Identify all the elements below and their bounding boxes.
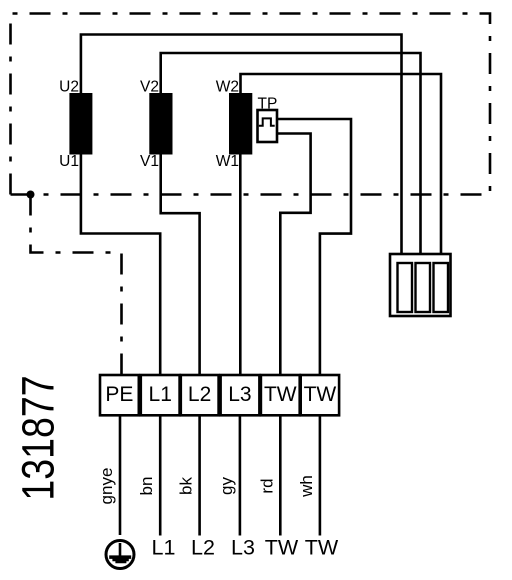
svg-text:L1: L1 (152, 536, 176, 560)
wire U1 to terminal L1 (81, 154, 160, 375)
protective earth symbol circle (106, 541, 134, 569)
svg-text:gnye: gnye (97, 468, 116, 505)
svg-text:L1: L1 (149, 383, 172, 406)
wire TP upper contact to terminal TW2 (277, 119, 351, 375)
wire wh below TW2 terminal (319, 416, 322, 536)
PE bond wire (dash-dot from housing to PE terminal) (31, 195, 122, 376)
svg-text:L2: L2 (191, 536, 215, 560)
winding U (motor phase U) (69, 93, 92, 155)
junction dot (housing PE connection) (27, 191, 35, 199)
svg-text:U2: U2 (59, 79, 79, 96)
svg-text:131877: 131877 (12, 375, 63, 500)
svg-text:bn: bn (137, 477, 156, 496)
wire W2 to connector pin 3 (241, 74, 442, 254)
terminal TW1 box (261, 375, 300, 415)
svg-text:wh: wh (297, 475, 316, 498)
connector block (plug) (390, 254, 451, 316)
connector pin 2 (416, 263, 431, 312)
svg-text:TW: TW (305, 536, 339, 560)
svg-text:V1: V1 (140, 153, 159, 170)
wire V1 to terminal L2 (161, 154, 200, 375)
svg-text:gy: gy (217, 477, 236, 495)
svg-text:V2: V2 (140, 79, 159, 96)
svg-text:bk: bk (177, 477, 196, 495)
svg-text:TW: TW (264, 383, 297, 406)
protective earth symbol stem and earth bars (109, 543, 131, 563)
wire rd below TW1 terminal (279, 416, 282, 536)
svg-text:U1: U1 (59, 153, 79, 170)
thermal protector TP box (258, 110, 278, 142)
terminal L3 box (221, 375, 260, 415)
wire gnye below PE terminal (119, 416, 122, 536)
svg-text:PE: PE (105, 383, 133, 406)
wire TP lower contact to terminal TW1 (277, 134, 311, 376)
svg-text:W1: W1 (216, 153, 239, 170)
wire bk below L2 terminal (198, 416, 201, 536)
svg-text:L3: L3 (231, 536, 255, 560)
svg-text:L2: L2 (188, 383, 211, 406)
winding V (motor phase V) (149, 93, 172, 155)
terminal PE box (100, 375, 139, 415)
enclosure (motor housing, dash-dot frame) (11, 14, 491, 195)
wire U2 to connector pin 1 (81, 35, 402, 255)
winding W (motor phase W) (229, 93, 252, 155)
svg-text:L3: L3 (228, 383, 251, 406)
connector pin 1 (398, 263, 413, 312)
thermal protector TP contact symbol (259, 118, 275, 125)
svg-text:W2: W2 (216, 79, 239, 96)
wire gy below L3 terminal (239, 416, 242, 536)
wire V2 to connector pin 2 (161, 53, 421, 254)
svg-text:rd: rd (257, 478, 276, 493)
terminal TW2 box (301, 375, 339, 415)
terminal L1 box (141, 375, 180, 415)
terminal L2 box (181, 375, 219, 415)
svg-text:TW: TW (265, 536, 299, 560)
wire bn below L1 terminal (159, 416, 162, 536)
wire W1 to terminal L3 (239, 154, 242, 375)
connector pin 3 (434, 263, 449, 312)
svg-text:TW: TW (304, 383, 337, 406)
